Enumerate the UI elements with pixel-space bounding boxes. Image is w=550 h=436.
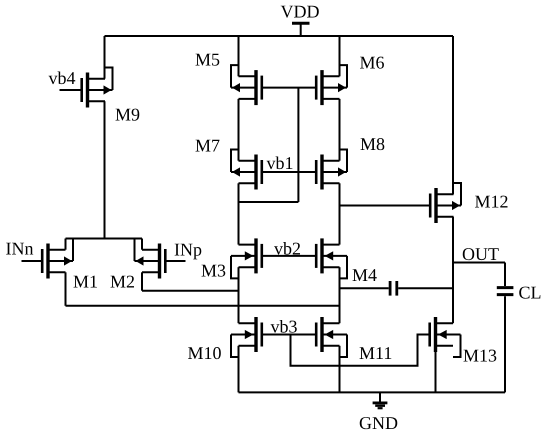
svg-text:M4: M4 [352, 265, 377, 285]
svg-text:M12: M12 [475, 192, 509, 212]
wire M5 source to VDD [238, 36, 240, 76]
svg-text:M1: M1 [73, 272, 98, 292]
svg-text:INn: INn [6, 239, 34, 259]
transistor M9 [82, 68, 113, 108]
transistor M6 [316, 65, 347, 105]
transistor M3 [231, 238, 262, 278]
svg-text:GND: GND [359, 413, 398, 433]
transistor M2 [135, 239, 166, 279]
tail node wire [66, 239, 143, 250]
M9 gate lead wire [60, 89, 82, 91]
transistor M11 [316, 317, 347, 357]
wire M13 source to ground rail [435, 352, 437, 392]
svg-text:VDD: VDD [281, 2, 320, 22]
wire M11 source to ground rail [339, 346, 341, 393]
wire vb3 bus to M13 gate [291, 335, 430, 366]
wire M3-M4 gates (vb2) [262, 255, 316, 257]
wire CL to ground rail [504, 296, 506, 392]
transistor M1 [42, 239, 73, 279]
svg-text:M10: M10 [188, 343, 222, 363]
transistor M10 [231, 317, 262, 357]
VDD rail wire [105, 35, 454, 37]
transistor M13 [430, 317, 461, 357]
capacitor CL [497, 288, 514, 295]
svg-text:OUT: OUT [462, 244, 499, 264]
svg-text:M3: M3 [201, 261, 226, 281]
wire M6 source to VDD [339, 36, 341, 76]
wire M8 drain to M4 drain [339, 183, 341, 244]
wire M5/M6 gates to M7 drain node [239, 88, 299, 202]
transistor M8 [316, 150, 347, 190]
svg-text:vb1: vb1 [267, 153, 294, 173]
wire compensation cap to OUT node [398, 287, 453, 289]
M2 gate lead wire [165, 260, 185, 262]
wire M2 drain to M10 drain [142, 272, 239, 290]
wire M7 drain to M3 drain [238, 183, 240, 244]
transistor M12 [430, 183, 461, 223]
svg-text:vb4: vb4 [49, 68, 76, 88]
svg-text:M5: M5 [195, 50, 220, 70]
wire M6 drain to M8 source [339, 99, 341, 161]
wire M1 drain to M11 drain [66, 272, 340, 306]
transistor M7 [231, 150, 262, 190]
svg-text:M8: M8 [360, 134, 385, 154]
wire M12 source to VDD [452, 36, 454, 194]
transistor M5 [231, 65, 262, 105]
wire M4 source node to compensation cap [340, 287, 389, 289]
wire M7-M8 gates (vb1) [262, 171, 316, 173]
OUT node wire [453, 263, 505, 287]
wire M10 source to ground rail [238, 346, 240, 393]
M1 gate lead wire [22, 260, 43, 262]
wire M10-M11 gates (vb3) [262, 334, 316, 336]
wire M9 drain to tail node [104, 101, 106, 239]
svg-text:M6: M6 [360, 53, 385, 73]
svg-text:M11: M11 [359, 343, 392, 363]
wire M4 source to M11 drain [339, 267, 341, 323]
svg-text:INp: INp [174, 240, 202, 260]
compensation capacitor [390, 281, 397, 296]
svg-text:M2: M2 [110, 272, 135, 292]
ground symbol [373, 392, 388, 408]
svg-text:CL: CL [519, 283, 542, 303]
wire M12 drain to M13 drain [452, 217, 454, 323]
wire M3 source to M10 drain [238, 267, 240, 323]
wire M8/M4 node to M12 gate [340, 205, 431, 207]
svg-text:M7: M7 [195, 136, 220, 156]
VDD supply symbol [292, 23, 310, 36]
wire M5-M6 gates [262, 87, 316, 89]
wire M9 source to VDD [104, 36, 106, 79]
wire M5 drain to M7 source [238, 99, 240, 161]
svg-text:M9: M9 [115, 105, 140, 125]
transistor M4 [316, 238, 347, 278]
ground rail wire [239, 391, 506, 393]
svg-text:M13: M13 [463, 346, 497, 366]
